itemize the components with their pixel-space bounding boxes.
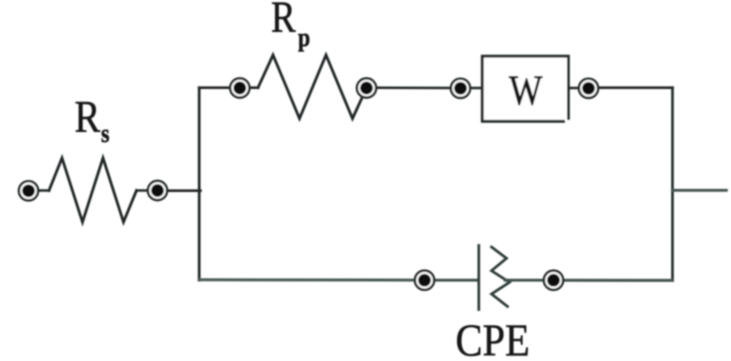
wire right rail (vertical junction) bbox=[671, 88, 674, 281]
capacitor CPE plate line bbox=[477, 246, 480, 310]
wire output stub bbox=[673, 189, 727, 192]
wire input terminal to Rs bbox=[29, 189, 50, 192]
wire node A to left rail bbox=[158, 189, 201, 192]
capacitor CPE zigzag bbox=[492, 247, 510, 307]
wire bottom branch left segment bbox=[199, 278, 424, 281]
resistor R1 (Rs) bbox=[49, 158, 137, 222]
node E bbox=[579, 79, 598, 98]
wire Rs to node A bbox=[137, 189, 158, 192]
node C bbox=[357, 78, 376, 97]
svg-text:CPE: CPE bbox=[456, 317, 530, 361]
wire node C to node D bbox=[367, 86, 461, 89]
svg-text:W: W bbox=[509, 68, 543, 115]
wire node E to right rail bbox=[589, 86, 673, 89]
node A bbox=[148, 181, 167, 200]
svg-text:R: R bbox=[271, 0, 296, 41]
wire node D to W box bbox=[461, 87, 483, 90]
wire CPE to node G bbox=[505, 279, 554, 282]
wire node F to CPE plate bbox=[425, 279, 478, 282]
resistor R2 (Rp) bbox=[258, 55, 367, 119]
wire node G to right rail bbox=[554, 279, 673, 282]
node B bbox=[230, 78, 249, 97]
wire W box to node E bbox=[569, 87, 589, 90]
svg-text:R: R bbox=[75, 92, 101, 143]
node G bbox=[544, 271, 563, 290]
wire node B to Rp bbox=[240, 86, 258, 89]
wire top branch left segment bbox=[199, 86, 240, 89]
wire left rail (vertical junction) bbox=[198, 88, 201, 281]
node D bbox=[451, 79, 470, 98]
svg-text:s: s bbox=[101, 120, 109, 148]
terminal node T1 (input) bbox=[19, 181, 38, 200]
warburg element W1 (box) bbox=[482, 56, 568, 121]
node F bbox=[415, 271, 434, 290]
svg-text:p: p bbox=[298, 24, 310, 52]
